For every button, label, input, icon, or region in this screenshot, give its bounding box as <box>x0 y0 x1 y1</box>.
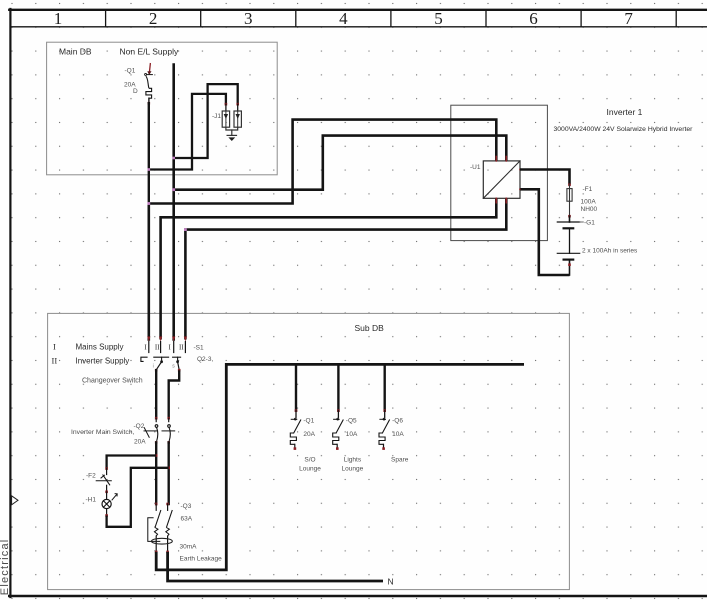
svg-text:-G1: -G1 <box>584 219 595 226</box>
svg-text:4: 4 <box>339 9 348 28</box>
svg-text:D: D <box>133 88 138 95</box>
svg-text:2 x 100Ah in series: 2 x 100Ah in series <box>582 248 638 255</box>
svg-text:20A: 20A <box>303 431 315 438</box>
svg-text:Inverter Main Switch,: Inverter Main Switch, <box>71 429 135 436</box>
svg-text:Earth Leakage: Earth Leakage <box>180 556 223 563</box>
svg-text:3000VA/2400W 24V Solarwize Hyb: 3000VA/2400W 24V Solarwize Hybrid Invert… <box>554 126 694 133</box>
svg-text:1: 1 <box>54 9 63 28</box>
svg-text:5: 5 <box>434 9 443 28</box>
svg-text:II: II <box>179 344 184 352</box>
svg-text:Spare: Spare <box>391 457 409 464</box>
svg-text:-Q1: -Q1 <box>303 417 314 424</box>
svg-text:-F2: -F2 <box>86 472 96 479</box>
svg-text:10A: 10A <box>346 431 358 438</box>
svg-text:-J1: -J1 <box>212 113 221 120</box>
svg-text:Mains Supply: Mains Supply <box>76 343 124 352</box>
svg-text:II: II <box>52 356 58 366</box>
svg-text:S/O: S/O <box>304 457 315 464</box>
svg-text:Lights: Lights <box>344 457 362 464</box>
svg-text:-H1: -H1 <box>86 497 97 504</box>
svg-text:100A: 100A <box>581 199 597 206</box>
svg-text:-Q2: -Q2 <box>134 423 145 430</box>
svg-text:-Q1: -Q1 <box>125 68 136 75</box>
svg-text:Q2-3,: Q2-3, <box>197 356 213 363</box>
svg-text:7: 7 <box>624 9 633 28</box>
svg-text:Non E/L Supply: Non E/L Supply <box>120 47 179 57</box>
svg-text:I: I <box>53 342 56 352</box>
svg-text:-F1: -F1 <box>583 186 593 193</box>
svg-text:i: i <box>153 363 154 369</box>
svg-text:-S1: -S1 <box>194 345 205 352</box>
svg-text:3: 3 <box>244 9 253 28</box>
svg-text:30mA: 30mA <box>180 544 198 551</box>
svg-text:NH00: NH00 <box>581 206 598 213</box>
svg-text:Main DB: Main DB <box>59 47 92 57</box>
svg-text:Changeover Switch: Changeover Switch <box>82 378 143 385</box>
svg-text:N: N <box>388 577 394 587</box>
svg-text:-Q6: -Q6 <box>392 417 403 424</box>
svg-text:Lounge: Lounge <box>342 466 364 473</box>
svg-text:Inverter 1: Inverter 1 <box>607 107 643 117</box>
svg-text:& Electrical: & Electrical <box>0 539 11 600</box>
svg-text:-Q3: -Q3 <box>181 503 192 510</box>
svg-text:Inverter Supply: Inverter Supply <box>76 357 130 366</box>
svg-text:6: 6 <box>529 9 538 28</box>
svg-text:2: 2 <box>149 9 158 28</box>
svg-text:-Q5: -Q5 <box>346 417 357 424</box>
svg-text:II: II <box>155 344 160 352</box>
svg-text:20A: 20A <box>134 439 146 446</box>
svg-text:Sub DB: Sub DB <box>355 323 385 333</box>
svg-text:63A: 63A <box>181 516 193 523</box>
svg-text:Lounge: Lounge <box>299 466 321 473</box>
svg-text:10A: 10A <box>392 431 404 438</box>
svg-text:-U1: -U1 <box>470 164 481 171</box>
